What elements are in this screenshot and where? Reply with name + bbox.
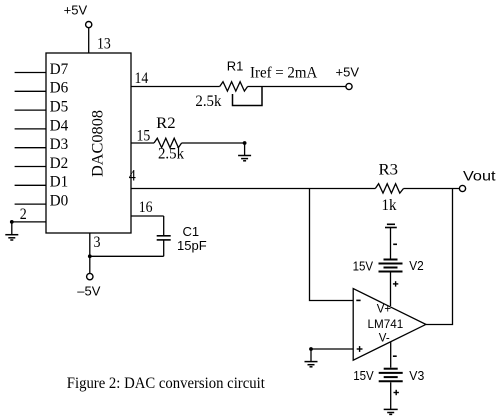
svg-text:D1: D1	[50, 174, 69, 191]
polarity plus (V3 bottom)	[394, 390, 399, 395]
wire ground to V2	[390, 228, 392, 259]
svg-text:R1: R1	[227, 58, 244, 73]
svg-text:V3: V3	[409, 368, 424, 383]
wire pin4 to R3	[131, 188, 375, 190]
svg-text:16: 16	[139, 199, 153, 216]
wire op-amp V- to V3	[390, 342, 392, 368]
-5V supply terminal	[87, 273, 93, 279]
wire pin16 to C1	[131, 216, 164, 235]
ground (op-amp + input)	[305, 349, 318, 367]
+5V supply terminal (right)	[346, 83, 352, 89]
junction R2 ground	[243, 141, 247, 145]
svg-text:D2: D2	[50, 155, 69, 172]
polarity minus (V3 top)	[393, 355, 397, 357]
svg-text:D0: D0	[50, 193, 69, 210]
svg-text:2: 2	[20, 206, 27, 223]
wire pin13 to +5V terminal	[88, 28, 90, 53]
+5V supply terminal (top)	[86, 22, 92, 28]
svg-text:13: 13	[97, 36, 111, 53]
battery V3 15V	[379, 369, 403, 382]
wire V3 to ground	[390, 382, 392, 409]
wire pin14 to R1	[131, 86, 220, 88]
wire D2 stub	[15, 166, 46, 168]
wire D3 stub	[15, 147, 46, 149]
Vout terminal	[459, 185, 465, 191]
svg-text:14: 14	[135, 70, 149, 87]
polarity plus (V2 bottom)	[393, 281, 398, 286]
svg-text:2.5k: 2.5k	[195, 93, 221, 110]
svg-text:+5V: +5V	[336, 65, 360, 80]
wire D5 stub	[15, 109, 46, 111]
op-amp inverting input minus symbol	[356, 299, 360, 301]
svg-text:Vout: Vout	[463, 168, 496, 184]
wire D4 stub	[15, 128, 46, 130]
svg-text:+5V: +5V	[64, 3, 88, 18]
wire pin15 to R2	[131, 142, 154, 144]
svg-text:V+: V+	[377, 304, 392, 316]
wire pin3 node to -5V terminal	[89, 256, 91, 273]
wire D0 stub	[15, 203, 46, 205]
polarity minus (V2 top)	[393, 243, 397, 245]
capacitor C1 15pF	[157, 236, 171, 240]
wire R1 to +5V terminal	[248, 86, 346, 88]
svg-text:4: 4	[129, 167, 136, 184]
ground (R2)	[238, 143, 251, 161]
wire D6 stub	[15, 90, 46, 92]
ground (V3 bottom)	[384, 409, 398, 414]
svg-text:LM741: LM741	[368, 319, 404, 331]
svg-text:3: 3	[94, 234, 101, 251]
svg-text:D5: D5	[50, 99, 69, 116]
svg-text:15: 15	[137, 127, 151, 144]
svg-text:2.5k: 2.5k	[158, 146, 184, 163]
ground (above V2, inverted)	[385, 224, 397, 227]
wire R2 to ground	[182, 142, 245, 144]
wire feedback tap down to inverting input	[310, 189, 354, 301]
wire D1 stub	[15, 184, 46, 186]
svg-text:Iref = 2mA: Iref = 2mA	[250, 65, 318, 82]
wire pin3 down	[89, 233, 91, 256]
wire non-inverting input to ground	[311, 348, 353, 350]
junction non-inverting ground	[309, 347, 313, 351]
battery V2 15V	[379, 260, 403, 272]
wire pin3 node to C1	[90, 255, 164, 257]
wire D7 stub	[15, 72, 46, 74]
op-amp U2 LM741	[353, 289, 426, 361]
svg-text:–5V: –5V	[77, 284, 100, 299]
wire pin2 to ground	[12, 222, 46, 235]
svg-text:15V: 15V	[353, 368, 374, 383]
resistor R2 2.5k	[154, 138, 182, 147]
svg-text:R3: R3	[379, 162, 399, 179]
wire C1 to pin3 node	[163, 240, 165, 256]
resistor R3 1k	[375, 184, 403, 193]
svg-text:Figure 2: DAC conversion circu: Figure 2: DAC conversion circuit	[67, 375, 266, 392]
svg-text:15V: 15V	[353, 259, 374, 274]
ground (pin 2)	[5, 235, 18, 240]
resistor R1 2.5k	[220, 82, 248, 91]
svg-text:V2: V2	[409, 258, 424, 273]
svg-text:D4: D4	[50, 117, 69, 134]
wire R3 to Vout	[404, 188, 460, 190]
junction pin2	[10, 220, 14, 224]
op-amp non-inverting input plus symbol	[357, 346, 363, 352]
svg-text:1k: 1k	[382, 197, 397, 214]
svg-text:DAC0808: DAC0808	[90, 110, 107, 177]
wire output node down to op-amp output	[426, 189, 453, 325]
Iref measuring loop	[233, 87, 263, 106]
svg-text:D6: D6	[50, 80, 69, 97]
svg-text:V-: V-	[379, 332, 390, 344]
svg-text:D7: D7	[50, 61, 69, 78]
IC U1 DAC0808 body	[46, 53, 131, 233]
svg-text:D3: D3	[50, 136, 69, 153]
svg-text:R2: R2	[156, 115, 176, 132]
junction pin3 node	[88, 254, 92, 258]
wire V2 to op-amp V+	[390, 273, 392, 307]
svg-text:15pF: 15pF	[177, 238, 207, 253]
